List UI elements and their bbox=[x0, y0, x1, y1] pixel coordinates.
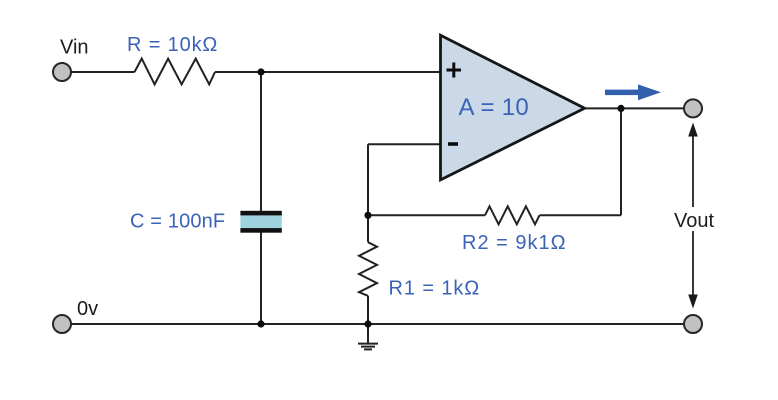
resistor R1k zigzag (R = 10k) bbox=[135, 59, 216, 85]
Vout arrowhead up bbox=[688, 123, 698, 137]
terminal Vout top bbox=[684, 99, 702, 117]
wire R to op-amp + input bbox=[215, 71, 441, 73]
Vout arrowhead down bbox=[688, 295, 698, 309]
svg-text:C = 100nF: C = 100nF bbox=[130, 211, 225, 233]
terminal Vin bbox=[53, 63, 71, 81]
op-amp + input symbol bbox=[447, 63, 462, 78]
svg-text:Vin: Vin bbox=[60, 37, 89, 59]
svg-text:R1 = 1kΩ: R1 = 1kΩ bbox=[389, 278, 481, 300]
wire Vin lead bbox=[70, 71, 135, 73]
wire bottom 0v rail bbox=[70, 323, 684, 325]
wire R1 bottom lead bbox=[367, 296, 369, 324]
blue output direction arrow bbox=[605, 84, 661, 100]
wire R1 top lead bbox=[367, 215, 369, 242]
wire op-amp output bbox=[585, 107, 684, 109]
junction node dot at output bbox=[617, 105, 624, 112]
op-amp U1 triangle bbox=[441, 35, 585, 180]
wire feedback vertical from output node bbox=[620, 108, 622, 215]
wire R2 left lead to inverting node bbox=[368, 214, 485, 216]
svg-text:0v: 0v bbox=[77, 298, 98, 320]
svg-text:A = 10: A = 10 bbox=[459, 94, 530, 121]
wire capacitor bottom lead bbox=[260, 231, 262, 324]
Vout measurement arrow lower segment bbox=[692, 231, 694, 301]
ground symbol bbox=[358, 344, 378, 350]
wire feedback to R2 right lead bbox=[540, 214, 622, 216]
svg-text:R = 10kΩ: R = 10kΩ bbox=[127, 34, 218, 56]
op-amp - input symbol bbox=[448, 142, 458, 146]
terminal Vout bottom bbox=[684, 315, 702, 333]
Vout measurement arrow upper segment bbox=[692, 129, 694, 207]
wire capacitor top lead bbox=[260, 72, 262, 212]
svg-text:Vout: Vout bbox=[674, 210, 714, 232]
junction node dot at R/C bbox=[257, 68, 264, 75]
junction node dot at inverting input bbox=[364, 212, 371, 219]
capacitor C body fill bbox=[240, 213, 281, 231]
resistor R1 zigzag bbox=[359, 242, 377, 296]
terminal 0v bbox=[53, 315, 71, 333]
wire ground stub bbox=[367, 324, 369, 344]
resistor R2 zigzag bbox=[485, 206, 540, 224]
capacitor C bottom plate bbox=[240, 228, 281, 233]
junction node dot at R1 bottom on rail bbox=[364, 320, 371, 327]
junction node dot at C bottom on rail bbox=[257, 320, 264, 327]
svg-text:R2 = 9k1Ω: R2 = 9k1Ω bbox=[462, 232, 567, 254]
capacitor C top plate bbox=[240, 211, 281, 216]
wire inverting node up bbox=[367, 144, 369, 215]
wire to op-amp - input bbox=[368, 143, 441, 145]
